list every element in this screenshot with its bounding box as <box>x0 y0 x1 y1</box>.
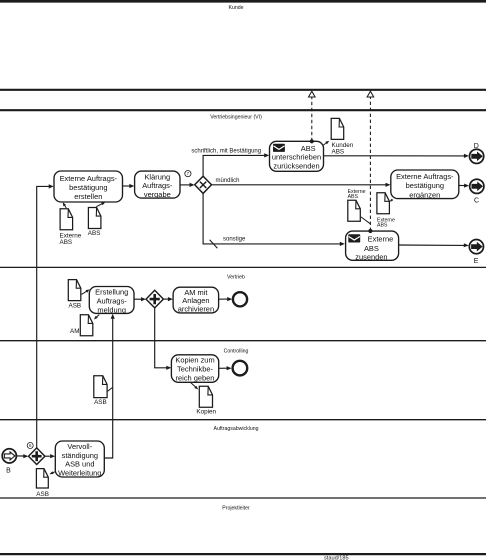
wire sonstige branch: gateway X down and right to task Externe ABS zusenden <box>203 193 340 244</box>
svg-text:Vertriebsingenieur (VI): Vertriebsingenieur (VI) <box>210 114 262 120</box>
wire parallel gateway 2 down to task Kopien zum Technikbereich geben <box>155 308 167 368</box>
association task Vervollständigung to ASB doc <box>51 472 56 474</box>
svg-text:ASB: ASB <box>36 491 49 498</box>
task Kopien zum Technikbereich geben <box>171 355 218 383</box>
parallel gateway Vertrieb <box>146 290 163 308</box>
svg-text:ABS: ABS <box>60 239 73 246</box>
default flow slash marker <box>210 240 218 248</box>
svg-text:B: B <box>6 468 11 475</box>
svg-text:ASB: ASB <box>94 399 107 406</box>
wire task AM mit Anlagen archivieren to end event Vertrieb <box>219 298 228 300</box>
svg-text:Externe: Externe <box>368 235 394 244</box>
svg-text:KlärungAuftrags-vergabe: KlärungAuftrags-vergabe <box>142 172 173 198</box>
end event Controlling <box>233 361 248 376</box>
wire parallel gateway 2 to task AM mit Anlagen archivieren <box>164 298 169 300</box>
parallel gateway Auftragsabwicklung <box>29 448 45 465</box>
association ASB doc to sequence flow (Controlling) <box>108 387 113 391</box>
wire link event B to parallel gateway <box>17 455 24 457</box>
svg-text:Kunde: Kunde <box>228 5 243 11</box>
svg-text:Projektleiter: Projektleiter <box>222 505 250 511</box>
wire task erstellen to task Klärung Auftragsvergabe <box>122 185 129 187</box>
message flow to Kunde from task ABS unterschrieben zurücksenden (dashed) <box>311 97 313 141</box>
svg-text:ASB: ASB <box>69 302 82 309</box>
svg-text:D: D <box>474 143 479 150</box>
end event Vertrieb <box>233 292 247 306</box>
data object Externe ABS (right, input to ergänzen) <box>377 193 390 214</box>
lane divider Vertrieb / Controlling <box>0 340 486 342</box>
svg-text:AM: AM <box>70 328 79 335</box>
svg-text:ABS: ABS <box>348 194 359 200</box>
svg-text:schriftlich, mit Bestätigung: schriftlich, mit Bestätigung <box>191 149 261 155</box>
lane divider Controlling / Auftragsabwicklung <box>0 419 486 421</box>
svg-text:ABS: ABS <box>88 230 101 237</box>
wire task Vervollständigung right and up to task Erstellung Auftragsmeldung <box>104 318 113 458</box>
data object AM <box>80 315 93 336</box>
data object Kunden ABS <box>331 118 344 139</box>
footnote marker 7 <box>185 171 191 177</box>
svg-text:ErstellungAuftrags-meldung: ErstellungAuftrags-meldung <box>95 288 128 315</box>
data object Kopien <box>199 386 212 407</box>
Kunde pool bottom border <box>0 89 486 91</box>
lane divider Auftragsabwicklung / Projektleiter <box>0 497 486 499</box>
link event D (off-page connector) <box>470 149 484 163</box>
svg-text:Vertrieb: Vertrieb <box>227 274 245 280</box>
task Klärung Auftragsvergabe <box>135 171 180 198</box>
task ABS unterschrieben zurücksenden <box>270 141 324 171</box>
data object ASB (Vertrieb) <box>68 280 81 301</box>
message flow start dot on task Externe ABS zusenden <box>368 229 372 233</box>
data object Externe ABS (left of message flow) <box>348 200 361 221</box>
wire schriftlich branch: gateway X up and right to task ABS unterschrieben <box>203 155 264 176</box>
envelope icon of task ABS unterschrieben zurücksenden <box>273 144 285 152</box>
task Externe Auftragsbestätigung ergänzen <box>391 170 459 199</box>
svg-text:unterschriebenzurücksenden: unterschriebenzurücksenden <box>272 153 321 171</box>
data object ABS (below task erstellen) <box>88 208 101 229</box>
svg-text:ABS: ABS <box>301 144 316 153</box>
wire task Erstellung Auftragsmeldung to parallel gateway 2 <box>134 298 141 300</box>
envelope icon of task Externe ABS zusenden <box>348 234 360 242</box>
association task Kopien zum Technikbereich geben to Kopien doc <box>191 382 197 388</box>
task Vervollständigung ASB und Weiterleitung <box>55 441 104 477</box>
pool bottom border <box>0 553 486 555</box>
svg-text:ABS: ABS <box>377 223 388 229</box>
footnote marker 6 <box>27 443 33 449</box>
association ASB doc to task Erstellung Auftragsmeldung <box>81 290 88 294</box>
link event B (incoming off-page connector) <box>2 449 16 463</box>
task Erstellung Auftragsmeldung <box>89 287 134 314</box>
wire task ergänzen to link event C <box>459 184 465 186</box>
main pool top border <box>0 109 486 111</box>
svg-text:sonstige: sonstige <box>223 237 246 243</box>
task AM mit Anlagen archivieren <box>173 287 219 313</box>
svg-text:E: E <box>474 258 479 265</box>
exclusive gateway X <box>195 176 212 193</box>
wire task Klärung Auftragsvergabe to gateway X <box>180 184 190 186</box>
pool top border <box>0 0 486 3</box>
svg-text:C: C <box>474 198 479 205</box>
svg-text:staud/185: staud/185 <box>324 555 349 560</box>
wire task Kopien zum Technikbereich geben to end event Controlling <box>219 367 227 369</box>
wire from parallel gateway up to task Externe Auftragsbestätigung erstellen <box>37 186 49 448</box>
data object ASB (Controlling) <box>94 376 107 398</box>
data object Externe ABS (below task erstellen) <box>60 209 73 230</box>
lane divider VI / Vertrieb <box>0 266 486 268</box>
data object ASB (Auftragsabwicklung) <box>36 469 48 488</box>
task Externe Auftragsbestätigung erstellen <box>54 171 123 202</box>
wire task Externe ABS zusenden to link event E <box>399 244 465 246</box>
svg-text:ABS: ABS <box>332 149 345 156</box>
svg-text:Controlling: Controlling <box>224 349 249 355</box>
association task ABS unterschrieben to Kunden ABS doc <box>321 142 327 147</box>
svg-text:Kopien zumTechnikbe-reich gebe: Kopien zumTechnikbe-reich geben <box>175 356 214 383</box>
association Externe ABS doc to task erstellen <box>64 204 67 209</box>
svg-text:mündlich: mündlich <box>216 178 240 184</box>
svg-text:Kopien: Kopien <box>196 409 216 416</box>
wire parallel gateway to task Vervollständigung <box>45 455 50 457</box>
association ABS doc to task erstellen <box>96 203 103 207</box>
association Externe ABS doc to message flow <box>361 217 370 224</box>
task Externe ABS zusenden <box>346 231 399 260</box>
message flow start dot on task ABS unterschrieben zurücksenden <box>310 139 314 143</box>
link event E (off-page connector) <box>469 240 483 254</box>
wire mündlich branch: gateway X right to task Externe Auftragsbestätigung ergänzen <box>211 184 385 186</box>
association task Erstellung Auftragsmeldung to AM doc <box>95 315 99 319</box>
wire task ABS unterschrieben zurücksenden to link event D <box>324 155 465 157</box>
association task ergänzen to Externe ABS doc <box>391 199 393 201</box>
link event C (off-page connector) <box>470 179 484 193</box>
message flow to Kunde from task Externe ABS zusenden (dashed) <box>369 97 371 231</box>
svg-text:Auftragsabwicklung: Auftragsabwicklung <box>214 426 259 432</box>
